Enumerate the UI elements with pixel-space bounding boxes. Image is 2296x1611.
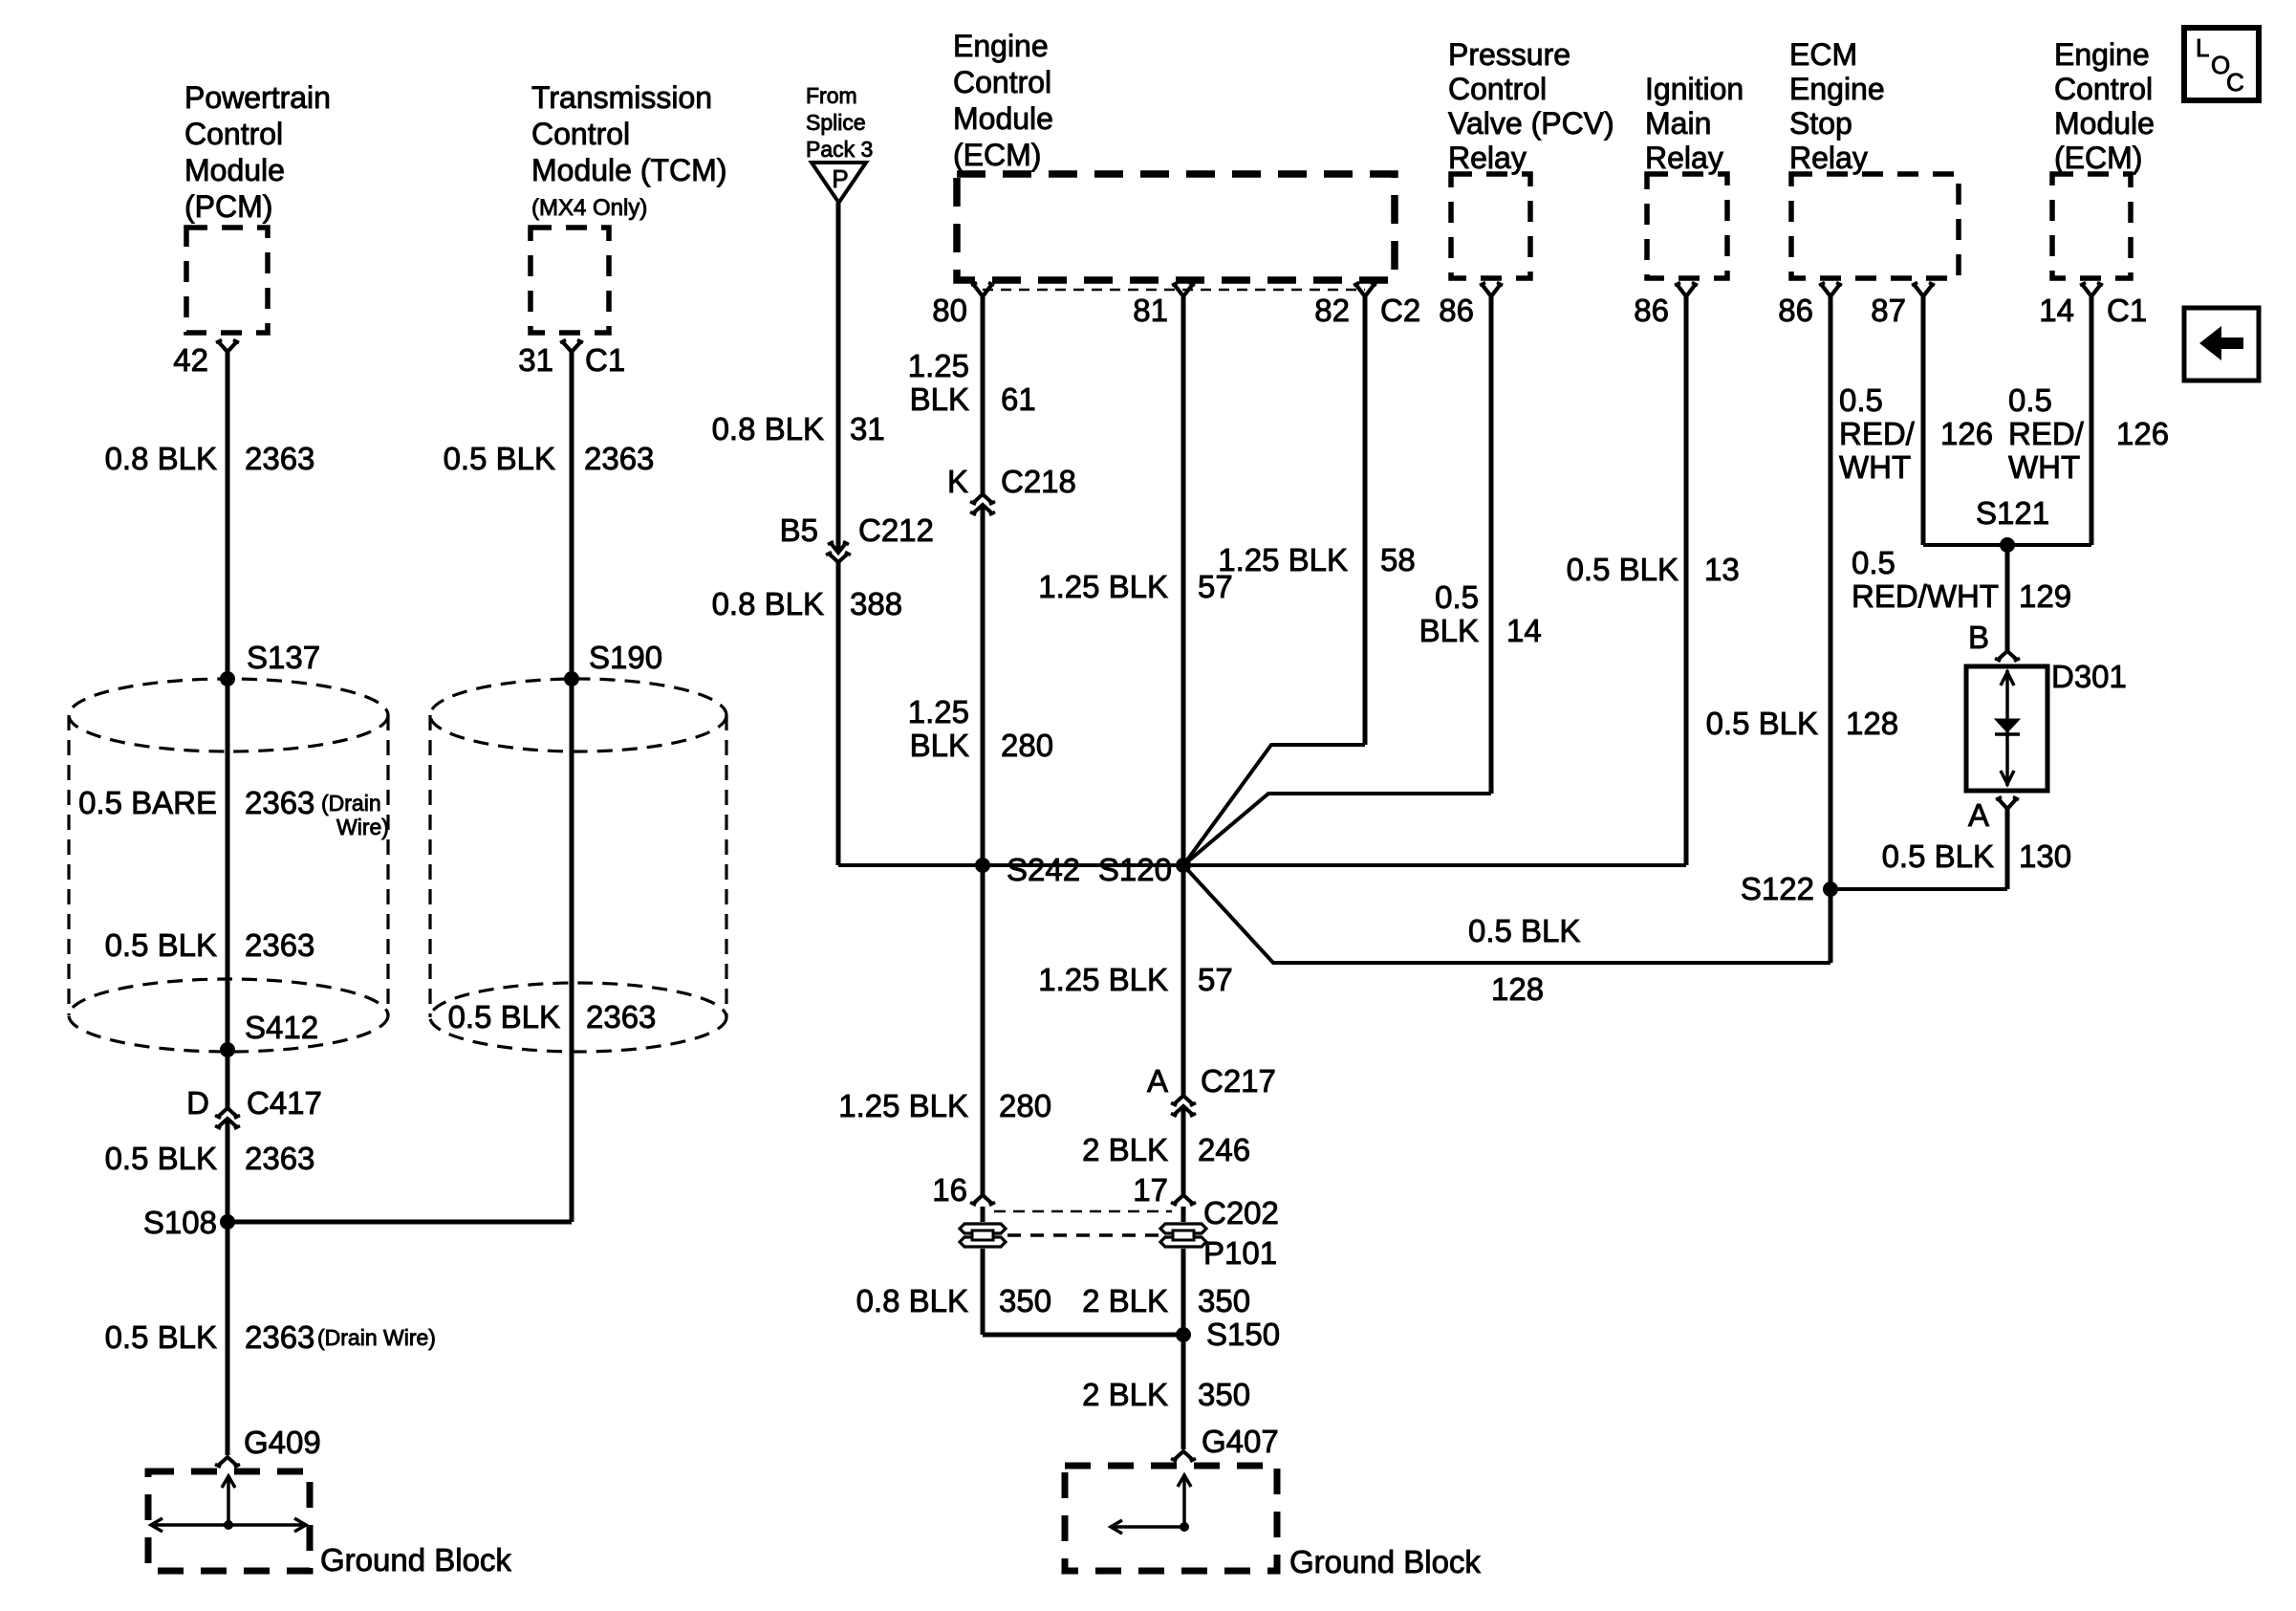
svg-text:RED/: RED/ [2008,416,2085,451]
svg-text:1.25 BLK: 1.25 BLK [1218,542,1348,577]
svg-text:Relay: Relay [1645,141,1723,175]
svg-text:(Drain Wire): (Drain Wire) [317,1325,436,1350]
svg-text:(ECM): (ECM) [953,138,1041,172]
svg-text:2 BLK: 2 BLK [1082,1132,1168,1167]
svg-text:A: A [1968,797,1989,833]
svg-text:WHT: WHT [2008,449,2080,485]
svg-text:P101: P101 [1203,1235,1277,1271]
svg-text:388: 388 [850,586,902,621]
svg-text:Stop: Stop [1789,106,1852,141]
svg-text:58: 58 [1380,542,1416,577]
svg-text:S242: S242 [1007,852,1080,887]
svg-text:BLK: BLK [910,728,969,763]
svg-text:1.25 BLK: 1.25 BLK [838,1088,968,1123]
svg-text:S412: S412 [245,1010,318,1045]
svg-text:Pressure: Pressure [1448,37,1570,72]
svg-text:S120: S120 [1098,852,1172,887]
svg-text:G409: G409 [244,1425,321,1460]
svg-text:RED/WHT: RED/WHT [1852,578,1999,614]
svg-text:Pack 3: Pack 3 [806,137,873,162]
svg-text:14: 14 [2039,293,2074,328]
svg-text:128: 128 [1491,971,1544,1007]
svg-text:Main: Main [1645,106,1711,141]
svg-text:G407: G407 [1202,1424,1279,1459]
svg-text:0.5 BLK: 0.5 BLK [1882,838,1994,874]
svg-text:87: 87 [1871,293,1906,328]
svg-text:2363: 2363 [245,441,314,476]
svg-text:0.5 BLK: 0.5 BLK [105,1141,217,1176]
svg-text:ECM: ECM [1789,37,1857,72]
svg-text:(MX4 Only): (MX4 Only) [531,195,647,221]
svg-text:Engine: Engine [2054,37,2150,72]
svg-text:1.25: 1.25 [908,694,969,729]
svg-text:A: A [1147,1063,1168,1099]
svg-text:0.8 BLK: 0.8 BLK [856,1283,968,1318]
svg-text:Control: Control [953,65,1051,99]
svg-text:57: 57 [1198,962,1233,997]
svg-text:Valve (PCV): Valve (PCV) [1448,106,1614,141]
svg-text:130: 130 [2019,838,2071,874]
svg-text:2363: 2363 [245,1141,314,1176]
svg-text:C218: C218 [1001,464,1076,499]
svg-text:1.25 BLK: 1.25 BLK [1038,962,1168,997]
svg-text:0.5 BLK: 0.5 BLK [448,999,560,1034]
svg-text:350: 350 [1198,1283,1250,1318]
svg-text:280: 280 [999,1088,1051,1123]
svg-text:2 BLK: 2 BLK [1082,1283,1168,1318]
svg-text:0.5 BLK: 0.5 BLK [444,441,555,476]
svg-text:0.8 BLK: 0.8 BLK [712,411,824,446]
svg-text:86: 86 [1634,293,1669,328]
svg-text:80: 80 [932,293,967,328]
svg-text:17: 17 [1133,1172,1168,1208]
svg-text:L: L [2196,33,2209,62]
svg-text:82: 82 [1314,293,1350,328]
svg-text:0.5 BLK: 0.5 BLK [105,927,217,963]
svg-text:14: 14 [1506,613,1542,648]
svg-text:16: 16 [932,1172,967,1208]
svg-text:K: K [947,464,968,499]
svg-text:Module: Module [2054,106,2155,141]
svg-text:C2: C2 [1380,293,1420,328]
svg-text:42: 42 [173,342,208,378]
svg-text:31: 31 [518,342,553,378]
svg-text:C1: C1 [585,342,625,378]
svg-text:C1: C1 [2107,293,2147,328]
svg-text:From: From [806,83,857,108]
svg-text:Powertrain: Powertrain [184,80,331,115]
svg-text:2 BLK: 2 BLK [1082,1377,1168,1412]
svg-text:350: 350 [999,1283,1051,1318]
svg-text:Relay: Relay [1789,141,1868,175]
svg-text:128: 128 [1846,706,1898,741]
svg-text:S190: S190 [589,640,662,675]
svg-text:Control: Control [184,117,283,151]
svg-text:2363: 2363 [245,927,314,963]
svg-text:13: 13 [1704,552,1740,587]
svg-text:C217: C217 [1201,1063,1276,1099]
svg-text:Engine: Engine [953,29,1049,63]
svg-text:RED/: RED/ [1839,416,1916,451]
svg-text:Control: Control [2054,72,2153,106]
svg-text:0.5 BLK: 0.5 BLK [105,1319,217,1355]
svg-text:C202: C202 [1203,1195,1279,1230]
svg-text:0.5: 0.5 [1852,545,1895,580]
svg-text:Module: Module [184,153,285,187]
svg-text:126: 126 [1940,416,1993,451]
svg-text:61: 61 [1001,381,1036,417]
svg-text:S108: S108 [143,1205,217,1240]
svg-text:BLK: BLK [910,381,969,417]
svg-text:1.25: 1.25 [908,348,969,383]
svg-text:P: P [832,164,848,193]
svg-text:280: 280 [1001,728,1053,763]
svg-text:126: 126 [2116,416,2169,451]
svg-text:Control: Control [531,117,630,151]
svg-text:2363: 2363 [584,441,654,476]
svg-text:BLK: BLK [1419,613,1479,648]
svg-text:D: D [186,1085,209,1121]
svg-text:2363: 2363 [586,999,656,1034]
svg-text:Engine: Engine [1789,72,1885,106]
svg-text:(ECM): (ECM) [2054,141,2142,175]
svg-text:2363: 2363 [245,785,314,820]
svg-text:0.5 BLK: 0.5 BLK [1706,706,1818,741]
svg-text:WHT: WHT [1839,449,1911,485]
svg-text:Transmission: Transmission [531,80,712,115]
svg-text:Ground Block: Ground Block [1289,1544,1481,1579]
svg-text:(PCM): (PCM) [184,189,272,224]
svg-text:D301: D301 [2051,659,2127,694]
svg-text:129: 129 [2019,578,2071,614]
svg-text:0.5 BARE: 0.5 BARE [78,785,217,820]
svg-text:81: 81 [1133,293,1168,328]
svg-text:246: 246 [1198,1132,1250,1167]
svg-text:0.5: 0.5 [2008,382,2052,418]
svg-text:Wire): Wire) [336,815,389,839]
svg-text:0.8 BLK: 0.8 BLK [105,441,217,476]
svg-text:S122: S122 [1741,871,1814,906]
svg-text:1.25 BLK: 1.25 BLK [1038,569,1168,604]
svg-text:(Drain: (Drain [321,791,381,816]
svg-text:B: B [1968,620,1989,655]
svg-text:C212: C212 [858,512,934,548]
svg-text:S121: S121 [1976,495,2049,531]
svg-text:Control: Control [1448,72,1547,106]
svg-text:Module (TCM): Module (TCM) [531,153,726,187]
svg-text:86: 86 [1439,293,1474,328]
svg-text:Ignition: Ignition [1645,72,1744,106]
svg-text:0.5: 0.5 [1839,382,1883,418]
svg-text:2363: 2363 [245,1319,314,1355]
svg-text:S137: S137 [247,640,320,675]
svg-text:0.5: 0.5 [1435,579,1479,615]
svg-text:0.5 BLK: 0.5 BLK [1567,552,1679,587]
svg-text:S150: S150 [1206,1317,1280,1352]
svg-text:0.8 BLK: 0.8 BLK [712,586,824,621]
svg-text:B5: B5 [780,512,818,548]
svg-text:Splice: Splice [806,110,866,135]
svg-text:C: C [2226,68,2244,97]
svg-text:0.5 BLK: 0.5 BLK [1468,913,1580,948]
svg-text:Ground Block: Ground Block [320,1542,511,1578]
svg-text:350: 350 [1198,1377,1250,1412]
svg-text:86: 86 [1778,293,1813,328]
svg-text:Relay: Relay [1448,141,1527,175]
svg-text:C417: C417 [247,1085,322,1121]
svg-text:31: 31 [850,411,885,446]
svg-text:Module: Module [953,101,1053,136]
